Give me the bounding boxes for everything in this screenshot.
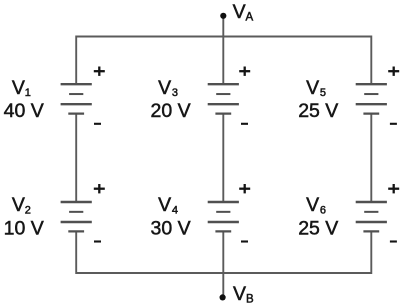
- minus of V2: [94, 240, 101, 242]
- battery V3: [208, 84, 239, 113]
- svg-text:B: B: [246, 293, 254, 305]
- svg-text:40 V: 40 V: [4, 100, 44, 122]
- svg-text:30 V: 30 V: [151, 217, 191, 239]
- wire left branch between batteries: [75, 114, 77, 203]
- plus of V5: [388, 67, 399, 76]
- plus of V6: [388, 184, 399, 193]
- battery V5: [356, 84, 387, 113]
- battery V1: [61, 84, 92, 113]
- svg-text:V: V: [12, 194, 25, 216]
- wire top bus connecting all three branches: [76, 37, 371, 85]
- minus of V5: [390, 123, 397, 125]
- svg-text:1: 1: [25, 87, 31, 99]
- svg-text:5: 5: [320, 87, 326, 99]
- svg-text:V: V: [306, 194, 319, 216]
- svg-text:V: V: [12, 77, 25, 99]
- svg-text:6: 6: [320, 204, 326, 216]
- wire middle branch between batteries: [222, 114, 224, 203]
- node VB dot: [220, 294, 226, 300]
- svg-text:V: V: [233, 1, 246, 23]
- node VA dot: [220, 13, 226, 19]
- minus of V4: [241, 240, 248, 242]
- svg-text:V: V: [158, 194, 171, 216]
- plus of V4: [239, 184, 250, 193]
- battery V4: [208, 202, 239, 231]
- svg-text:A: A: [246, 11, 254, 23]
- svg-text:25 V: 25 V: [298, 217, 338, 239]
- battery V6: [356, 202, 387, 231]
- plus of V2: [94, 184, 105, 193]
- svg-text:25 V: 25 V: [298, 100, 338, 122]
- wire VB stub from battery V4 through bottom bus: [222, 231, 224, 297]
- svg-text:20 V: 20 V: [151, 100, 191, 122]
- svg-text:10 V: 10 V: [4, 217, 44, 239]
- svg-text:V: V: [306, 77, 319, 99]
- svg-text:3: 3: [172, 87, 178, 99]
- wire VA stub down to battery V3: [222, 16, 224, 84]
- svg-text:V: V: [233, 283, 246, 305]
- svg-text:V: V: [158, 77, 171, 99]
- svg-text:2: 2: [25, 204, 31, 216]
- battery V2: [61, 202, 92, 231]
- minus of V6: [390, 240, 397, 242]
- wire right branch between batteries: [370, 114, 372, 203]
- wire bottom bus connecting all three branches: [76, 231, 371, 273]
- svg-text:4: 4: [172, 204, 178, 216]
- minus of V1: [94, 123, 101, 125]
- plus of V3: [239, 67, 250, 76]
- plus of V1: [94, 67, 105, 76]
- minus of V3: [241, 123, 248, 125]
